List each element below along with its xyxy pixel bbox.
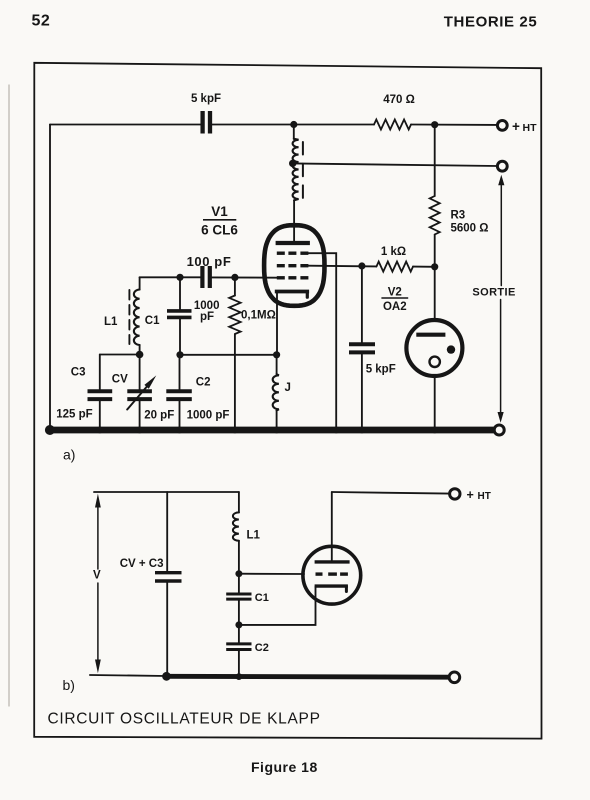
svg-text:HT: HT	[523, 122, 538, 134]
svg-text:CV: CV	[112, 374, 128, 386]
svg-text:CIRCUIT OSCILLATEUR DE KLAPP: CIRCUIT OSCILLATEUR DE KLAPP	[48, 711, 321, 728]
svg-text:OA2: OA2	[383, 301, 407, 313]
svg-text:R3: R3	[451, 210, 466, 222]
svg-text:125 pF: 125 pF	[56, 409, 92, 421]
svg-text:C2: C2	[196, 377, 211, 389]
svg-text:C3: C3	[71, 367, 86, 379]
svg-text:5 kpF: 5 kpF	[366, 364, 396, 376]
svg-text:5 kpF: 5 kpF	[191, 93, 221, 105]
svg-text:100 pF: 100 pF	[187, 254, 232, 269]
svg-text:0,1MΩ: 0,1MΩ	[241, 309, 276, 321]
svg-text:+: +	[467, 488, 474, 502]
svg-text:THEORIE 25: THEORIE 25	[444, 13, 538, 30]
svg-text:5600 Ω: 5600 Ω	[451, 223, 489, 235]
svg-text:1 kΩ: 1 kΩ	[381, 246, 406, 258]
svg-text:a): a)	[63, 447, 75, 463]
svg-text:470 Ω: 470 Ω	[383, 94, 415, 106]
svg-text:52: 52	[32, 13, 51, 30]
svg-text:C2: C2	[255, 642, 269, 654]
svg-text:C1: C1	[255, 592, 269, 604]
svg-text:L1: L1	[104, 316, 118, 328]
svg-text:V: V	[93, 569, 101, 581]
svg-text:HT: HT	[478, 491, 491, 502]
svg-text:1000 pF: 1000 pF	[187, 410, 230, 422]
svg-text:V2: V2	[388, 286, 402, 298]
svg-text:V1: V1	[211, 204, 228, 219]
svg-text:C1: C1	[145, 315, 160, 327]
svg-text:b): b)	[63, 677, 75, 693]
svg-text:20 pF: 20 pF	[144, 410, 174, 422]
svg-text:+: +	[512, 119, 520, 134]
svg-text:Figure 18: Figure 18	[251, 759, 318, 775]
svg-text:CV + C3: CV + C3	[120, 558, 164, 570]
svg-text:pF: pF	[200, 311, 214, 323]
svg-text:SORTIE: SORTIE	[472, 286, 515, 298]
svg-text:J: J	[285, 382, 291, 394]
svg-text:6 CL6: 6 CL6	[201, 223, 238, 238]
svg-text:L1: L1	[247, 530, 261, 542]
